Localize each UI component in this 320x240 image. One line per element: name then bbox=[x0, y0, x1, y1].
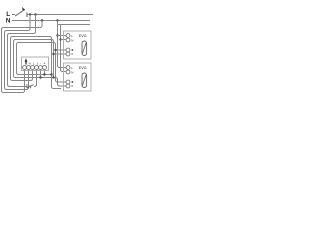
svg-text:EVG: EVG bbox=[79, 34, 87, 38]
junction dot t6 plus bbox=[43, 73, 45, 75]
ballast EVG2 mark plus bbox=[71, 81, 73, 83]
ballast EVG1 box bbox=[64, 31, 92, 59]
wire loop1 N to device bbox=[2, 21, 43, 93]
device U1 terminal t2 bbox=[27, 66, 31, 70]
device U1 terminal t3 bbox=[31, 66, 35, 70]
ballast EVG1 terminal N bbox=[66, 38, 70, 42]
ballast EVG2 terminal N bbox=[66, 70, 70, 74]
switch S2 contact bar bbox=[26, 84, 28, 88]
junction dot minus ring bbox=[52, 76, 54, 78]
lamp LA2 filament diagonal bbox=[82, 75, 86, 86]
junction dot N-a bbox=[41, 19, 43, 21]
wire N branch to right bus bbox=[58, 21, 91, 25]
junction dot EVG1 N tap bbox=[59, 38, 61, 40]
wire N line bbox=[12, 20, 90, 22]
junction dot t5 minus bbox=[39, 76, 41, 78]
ballast EVG2 terminal minus bbox=[66, 84, 70, 88]
wire loop4 terminal-1 bbox=[11, 37, 62, 89]
svg-text:EVG: EVG bbox=[79, 66, 87, 70]
ballast EVG2 box bbox=[64, 63, 92, 91]
device U1 terminal t4 bbox=[35, 66, 39, 70]
svg-text:-: - bbox=[40, 61, 41, 65]
device U1 terminal t1 bbox=[23, 66, 27, 70]
wire loop3 L to bottom switch bbox=[8, 15, 36, 87]
ballast EVG2 terminal plus bbox=[66, 80, 70, 84]
ballast EVG1 mark plus bbox=[71, 49, 73, 51]
switch S1 actuator arrow bbox=[22, 7, 26, 11]
svg-text:N: N bbox=[71, 39, 73, 43]
switch S1 contact bar bbox=[26, 12, 28, 17]
device U1 box bbox=[22, 57, 49, 71]
ballast EVG1 mark minus bbox=[71, 53, 73, 55]
wire bottom switch link to t4 bbox=[34, 69, 37, 87]
junction dot L-a bbox=[29, 13, 31, 15]
svg-text:N: N bbox=[29, 61, 31, 65]
junction dot EVG1 L tap bbox=[56, 34, 58, 36]
switch S2 tick bbox=[30, 86, 31, 89]
ballast EVG1 terminal minus bbox=[66, 52, 70, 56]
svg-text:N: N bbox=[6, 18, 11, 25]
lamp LA2 tube bbox=[82, 73, 87, 88]
svg-text:N: N bbox=[71, 71, 73, 75]
wire stub EVG1 plus bbox=[56, 49, 67, 51]
junction dot plus ring bbox=[50, 73, 52, 75]
wire stub EVG1 L bbox=[58, 35, 67, 37]
lamp LA1 filament diagonal bbox=[82, 43, 86, 54]
device U1 terminal t5 bbox=[39, 66, 43, 70]
ballast EVG1 terminal L bbox=[66, 34, 70, 38]
wire plus right end bbox=[45, 74, 52, 76]
switch S1 blade bbox=[15, 10, 24, 16]
junction dot EVG1 minus tap bbox=[52, 53, 54, 55]
wire vertical to EVG N terminals bbox=[61, 25, 67, 72]
wire stub EVG1 N bbox=[61, 39, 67, 41]
device U1 arrow bbox=[25, 61, 27, 65]
ballast EVG1 terminal plus bbox=[66, 48, 70, 52]
wire loop6 plus bbox=[17, 43, 67, 83]
lamp LA1 tube bbox=[82, 41, 87, 56]
ballast EVG2 mark minus bbox=[71, 85, 73, 87]
svg-text:+: + bbox=[43, 61, 45, 65]
junction dot EVG1 plus tap bbox=[54, 49, 56, 51]
junction dot N-b bbox=[56, 19, 58, 21]
device U1 terminal t6 bbox=[43, 66, 47, 70]
background bbox=[0, 0, 98, 98]
wire loop2 L to device bbox=[5, 15, 31, 90]
switch S2 blade bbox=[27, 85, 33, 88]
wire minus extension to EVG2 bbox=[41, 78, 67, 87]
wire vertical to EVG top terminals bbox=[58, 25, 67, 68]
wire loop5 minus bbox=[14, 40, 54, 78]
wire L line bbox=[27, 14, 93, 16]
wire stub EVG1 minus bbox=[54, 53, 67, 55]
wire L feed segment bbox=[12, 14, 15, 16]
junction dot L-b bbox=[34, 13, 36, 15]
ballast EVG2 terminal L bbox=[66, 66, 70, 70]
